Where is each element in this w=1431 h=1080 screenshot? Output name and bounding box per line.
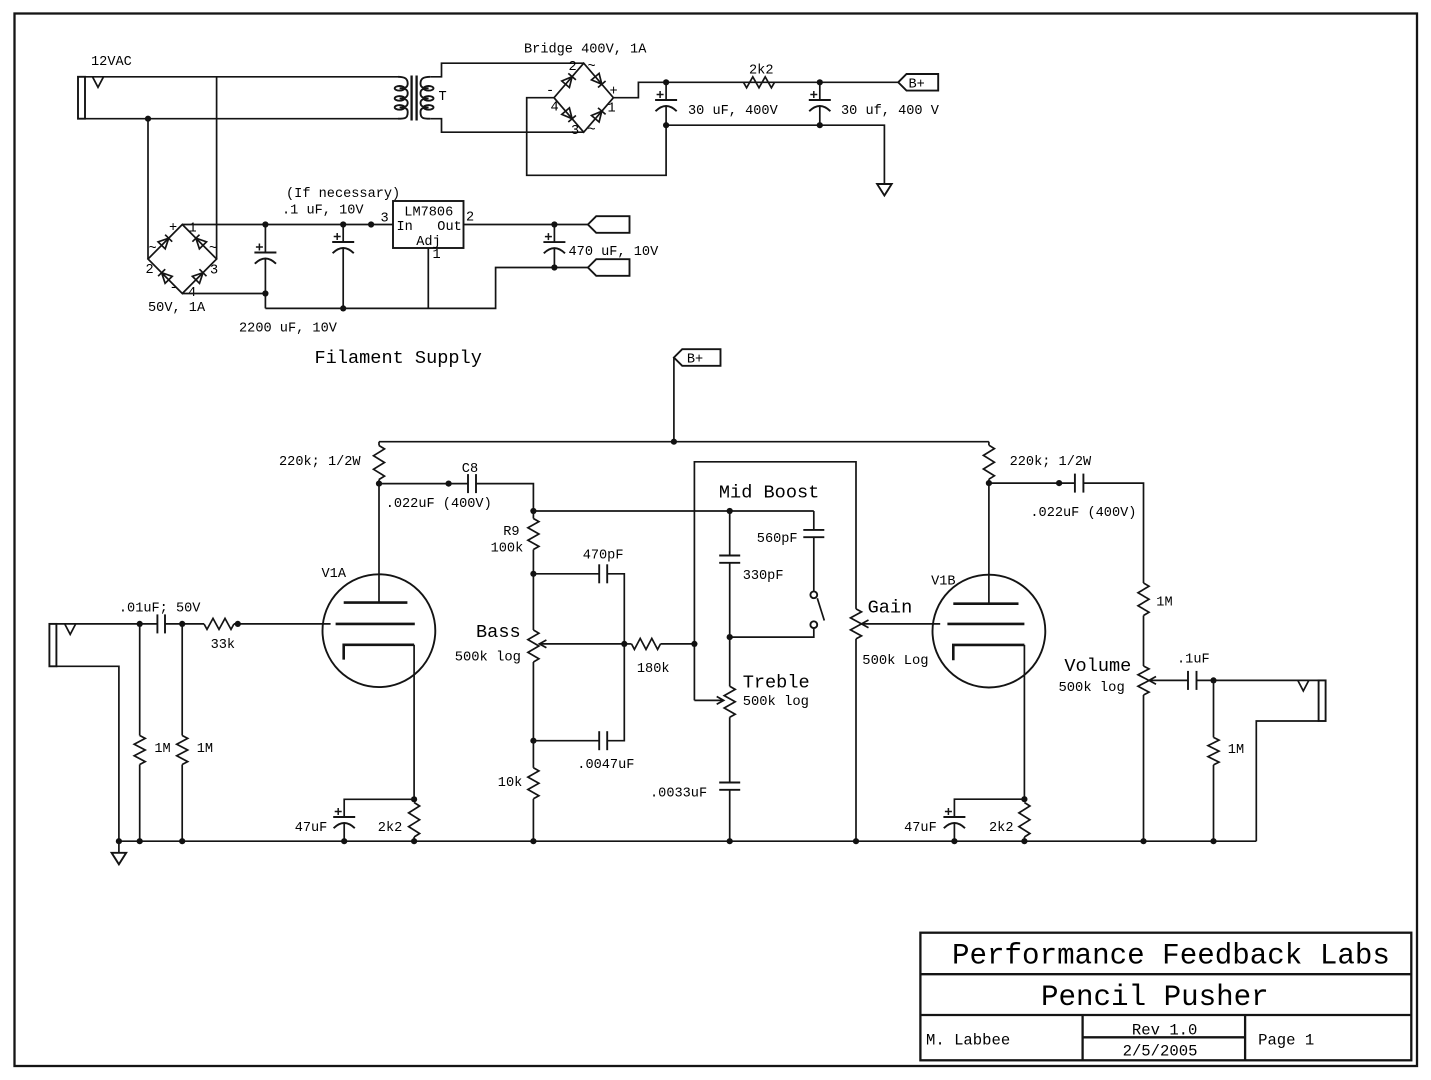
svg-text:Performance Feedback Labs: Performance Feedback Labs	[952, 940, 1390, 973]
svg-text:30 uF, 400V: 30 uF, 400V	[688, 104, 779, 119]
svg-text:2k2: 2k2	[378, 821, 402, 836]
ground symbol (signal)	[118, 841, 120, 853]
wire HT ground rail	[666, 125, 884, 184]
triode V1B envelope	[933, 575, 1046, 688]
wire 12VAC top	[85, 76, 398, 78]
svg-text:500k log: 500k log	[455, 650, 521, 666]
title block frame	[920, 933, 1411, 1061]
wire to filament bridge left	[147, 119, 149, 259]
svg-text:30 uf, 400 V: 30 uf, 400 V	[841, 104, 940, 119]
switch SW1 (mid boost)	[810, 591, 817, 598]
wire LM7806 adj to ground rail	[427, 248, 429, 308]
V1A grid	[336, 623, 415, 626]
V1B grid	[947, 623, 1024, 626]
wire bass top to 470pF	[533, 573, 599, 575]
wire filament bridge -	[182, 293, 265, 295]
flag B+ (amplifier feed)	[674, 349, 721, 366]
diode D8 (B to R)	[192, 273, 203, 284]
wire filament ground rail	[265, 268, 588, 309]
resistor 2k2 (V1A cathode)	[409, 803, 420, 838]
resistor 1M (V1B output load)	[1138, 583, 1149, 616]
svg-text:.01uF; 50V: .01uF; 50V	[119, 602, 201, 617]
svg-text:500k log: 500k log	[1059, 680, 1125, 696]
resistor 33k (grid stopper)	[204, 618, 234, 629]
diode D1 (L to T)	[562, 77, 572, 88]
wire 470pF to treble junction	[607, 574, 624, 644]
V1A plate lead	[378, 484, 380, 603]
wire cathode node to bypass cap	[344, 799, 414, 817]
node at second filter cap	[817, 79, 823, 85]
capacitor 470pF	[598, 564, 600, 583]
resistor 220k 1/2W (V1B plate)	[988, 442, 990, 446]
wire secondary top to HT bridge	[430, 63, 584, 77]
ground rail junction	[853, 838, 859, 844]
svg-text:-: -	[170, 281, 178, 296]
capacitor .022uF 400V (V1B output)	[1074, 474, 1076, 493]
svg-text:3: 3	[210, 264, 218, 279]
svg-text:2/5/2005: 2/5/2005	[1123, 1043, 1198, 1061]
svg-text:Bridge 400V, 1A: Bridge 400V, 1A	[524, 43, 647, 58]
svg-text:Rev 1.0: Rev 1.0	[1132, 1022, 1198, 1040]
svg-text:B+: B+	[687, 353, 703, 368]
wire B+ rail	[379, 441, 989, 443]
transformer T secondary winding	[421, 77, 431, 119]
svg-text:470 uF, 10V: 470 uF, 10V	[569, 245, 660, 260]
bass wiper	[539, 643, 624, 645]
ground rail junction	[951, 838, 957, 844]
wire .0033uF to ground rail	[729, 790, 731, 841]
V1A plate	[344, 601, 408, 604]
treble wiper	[694, 699, 723, 701]
capacitor .0047uF	[598, 731, 600, 750]
svg-text:.0033uF: .0033uF	[650, 787, 707, 802]
svg-text:12VAC: 12VAC	[91, 55, 132, 70]
svg-text:47uF: 47uF	[295, 821, 328, 836]
wire switch to 330pF junction	[730, 628, 814, 637]
wire coupling node to mid boost caps	[533, 510, 813, 512]
diode D5 (L to T)	[158, 238, 169, 249]
svg-text:2200 uF, 10V: 2200 uF, 10V	[239, 322, 338, 337]
resistor 2k2 (V1B cathode)	[1019, 803, 1030, 838]
diode D2 (T to R)	[592, 73, 602, 84]
ground rail junction	[341, 838, 347, 844]
ground rail junction	[727, 838, 733, 844]
wire HT bridge - return loop	[527, 98, 666, 176]
V1B plate lead	[988, 483, 990, 604]
node junction on 12VAC bottom	[145, 116, 151, 122]
capacitor .0033uF	[719, 782, 740, 784]
ground rail junction	[1210, 838, 1216, 844]
potentiometer Treble 500k log	[729, 637, 731, 686]
svg-text:Out: Out	[437, 220, 461, 235]
svg-text:~: ~	[588, 60, 596, 75]
V1B cathode node	[1021, 796, 1027, 802]
svg-text:M. Labbee: M. Labbee	[926, 1032, 1010, 1050]
V1B plate	[953, 602, 1018, 605]
svg-text:(If necessary): (If necessary)	[286, 187, 400, 202]
wire V1A plate node to C8	[379, 483, 468, 485]
svg-text:500k Log: 500k Log	[862, 653, 928, 669]
capacitor C8 .022uF 400V	[467, 474, 469, 493]
svg-text:.1 uF, 10V: .1 uF, 10V	[282, 204, 364, 219]
svg-text:180k: 180k	[637, 662, 670, 677]
wire cathode node to bypass cap	[954, 799, 1024, 817]
wire C8 to tone stack	[476, 484, 533, 511]
wire bass bottom to .0047uF	[533, 740, 599, 742]
resistor 1M (input load B)	[181, 624, 183, 736]
wire output cap to volume chain	[1083, 483, 1143, 583]
resistor 220k 1/2W (V1A plate)	[378, 442, 380, 446]
wire LM7806 output	[464, 224, 588, 226]
resistor 10k (bass bottom)	[532, 741, 534, 768]
svg-text:Gain: Gain	[868, 598, 913, 619]
capacitor 47uF (V1B cathode bypass)	[943, 816, 965, 818]
ground rail junction	[1140, 838, 1146, 844]
potentiometer Gain 500k Log	[851, 609, 862, 639]
wire output jack sleeve to ground	[1256, 721, 1318, 841]
wire .0047uF up to treble junction	[607, 644, 624, 741]
svg-text:47uF: 47uF	[904, 821, 937, 836]
bridge rectifier B1 400V 1A	[554, 63, 613, 132]
svg-text:.022uF (400V): .022uF (400V)	[386, 497, 492, 512]
wire HT bridge + output to B+ rail	[613, 82, 898, 97]
resistor 1M (output)	[1213, 680, 1215, 737]
ground symbol HT	[877, 184, 892, 196]
potentiometer Bass 500k log	[528, 630, 539, 662]
svg-text:2k2: 2k2	[749, 64, 773, 79]
capacitor .01uF 50V (input)	[156, 614, 158, 633]
svg-text:~: ~	[149, 242, 157, 257]
diode D3 (L to B)	[562, 108, 572, 119]
svg-text:+: +	[169, 221, 177, 236]
svg-text:~: ~	[588, 124, 596, 139]
svg-text:50V, 1A: 50V, 1A	[148, 301, 206, 316]
wire to filament bridge right	[216, 77, 218, 259]
resistor 2k2 (HT dropper)	[744, 77, 775, 88]
potentiometer Volume 500k log	[1138, 666, 1149, 695]
capacitor 330pF	[729, 511, 731, 556]
svg-text:.1uF: .1uF	[1177, 653, 1210, 668]
flag B+ (top)	[898, 74, 938, 91]
capacitor .1uF 10V (if necessary)	[332, 241, 354, 243]
V1A cathode lead	[413, 645, 415, 800]
svg-text:3: 3	[381, 212, 389, 227]
svg-text:2: 2	[569, 60, 577, 75]
transformer T primary winding	[398, 77, 408, 119]
svg-text:In: In	[397, 220, 413, 235]
svg-text:10k: 10k	[498, 776, 522, 791]
wire output cap to jack	[1197, 679, 1319, 681]
diode D6 (R to T)	[196, 238, 207, 249]
V1B cathode	[953, 645, 1024, 660]
svg-text:1M: 1M	[154, 742, 170, 757]
svg-text:1M: 1M	[1228, 743, 1244, 758]
wire 33k to V1A grid	[234, 623, 331, 625]
V1A cathode node	[411, 796, 417, 802]
svg-text:B+: B+	[909, 78, 925, 93]
capacitor 2200uF 10V	[254, 252, 276, 254]
svg-text:3: 3	[571, 124, 579, 139]
ground rail junction	[179, 838, 185, 844]
ground rail junction	[530, 838, 536, 844]
capacitor 470uF 10V	[543, 241, 565, 243]
wire 560pF branch down	[813, 511, 815, 530]
wire secondary bottom to HT bridge	[430, 119, 584, 133]
svg-text:.022uF (400V): .022uF (400V)	[1030, 506, 1136, 521]
triode V1A envelope	[323, 574, 436, 687]
wire input jack to coupling cap	[56, 623, 157, 625]
V1B cathode lead	[1023, 645, 1025, 799]
svg-text:V1B: V1B	[931, 575, 955, 590]
node at first filter cap	[663, 79, 669, 85]
svg-text:2: 2	[466, 211, 474, 226]
wire mid boost loop (treble wiper to gain top)	[694, 462, 856, 701]
ground rail junction	[137, 838, 143, 844]
resistor 1M (input load A)	[139, 624, 141, 736]
diode D7 (B to L)	[162, 273, 173, 284]
svg-text:470pF: 470pF	[583, 549, 624, 564]
svg-text:220k; 1/2W: 220k; 1/2W	[1010, 455, 1092, 470]
gain wiper to V1B grid	[862, 623, 941, 625]
svg-text:1: 1	[433, 248, 441, 263]
capacitor .1uF (output)	[1187, 671, 1189, 690]
svg-text:Page 1: Page 1	[1258, 1032, 1314, 1050]
wire B+ flag down to rail	[673, 358, 675, 442]
wire 560pF to switch	[813, 537, 815, 591]
wire 12VAC bottom	[85, 118, 398, 120]
wire ground rail	[119, 840, 1256, 842]
svg-text:2k2: 2k2	[989, 821, 1013, 836]
input jack J2	[49, 624, 56, 666]
regulator U1 LM7806	[393, 201, 464, 248]
diode D4 (B to R)	[592, 111, 602, 122]
resistor R9 100k	[532, 511, 534, 519]
svg-text:100k: 100k	[491, 542, 524, 557]
svg-text:330pF: 330pF	[743, 569, 784, 584]
capacitor 47uF (V1A cathode bypass)	[333, 816, 355, 818]
svg-text:220k; 1/2W: 220k; 1/2W	[279, 455, 361, 470]
ground rail junction	[1021, 838, 1027, 844]
svg-text:1M: 1M	[1156, 596, 1172, 611]
capacitor 30uF #2	[809, 99, 831, 101]
svg-text:.0047uF: .0047uF	[577, 758, 634, 773]
volume wiper	[1149, 679, 1188, 681]
svg-text:2: 2	[146, 263, 154, 278]
svg-text:Bass: Bass	[476, 622, 521, 643]
transformer T core	[410, 76, 412, 121]
svg-text:V1A: V1A	[322, 567, 347, 582]
bridge rectifier B2 50V 1A	[148, 225, 217, 294]
flag filament output -	[588, 259, 630, 276]
wire input cap to 33k	[165, 623, 204, 625]
ground rail junction	[411, 838, 417, 844]
svg-text:Mid Boost: Mid Boost	[719, 483, 819, 504]
ground rail junction	[116, 838, 122, 844]
svg-text:-: -	[546, 84, 554, 99]
svg-text:560pF: 560pF	[757, 532, 798, 547]
svg-text:4: 4	[551, 101, 559, 116]
svg-text:Volume: Volume	[1064, 656, 1131, 677]
svg-text:500k log: 500k log	[743, 694, 809, 710]
output jack J3	[1298, 680, 1309, 691]
resistor 180k	[624, 643, 631, 645]
svg-text:Treble: Treble	[743, 673, 810, 694]
svg-text:C8: C8	[462, 462, 478, 477]
svg-text:R9: R9	[503, 525, 519, 540]
svg-text:1: 1	[608, 102, 616, 117]
wire filament bridge + to LM7806	[182, 224, 393, 226]
svg-text:1M: 1M	[197, 742, 213, 757]
svg-text:T: T	[439, 90, 447, 105]
capacitor 560pF	[803, 529, 824, 531]
svg-text:~: ~	[209, 242, 217, 257]
wire input jack sleeve to ground	[56, 666, 119, 841]
svg-text:Pencil Pusher: Pencil Pusher	[1041, 981, 1269, 1014]
flag filament output +	[588, 216, 630, 233]
svg-text:Filament Supply: Filament Supply	[315, 348, 482, 369]
V1A cathode	[344, 645, 414, 660]
wire V1B plate node to output cap	[989, 482, 1075, 484]
svg-text:33k: 33k	[211, 638, 235, 653]
capacitor 30uF #1	[655, 99, 677, 101]
input jack J1 12VAC	[78, 77, 85, 119]
svg-text:LM7806: LM7806	[404, 206, 453, 221]
